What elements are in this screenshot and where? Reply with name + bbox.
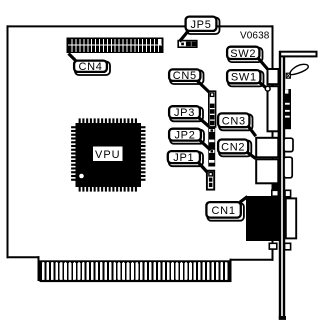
svg-text:JP5: JP5 [190, 19, 211, 31]
svg-text:CN4: CN4 [78, 61, 102, 73]
svg-text:CN3: CN3 [222, 115, 246, 127]
svg-text:JP1: JP1 [173, 152, 194, 164]
svg-text:CN1: CN1 [212, 205, 236, 217]
svg-text:JP3: JP3 [174, 107, 195, 119]
svg-text:SW1: SW1 [231, 72, 257, 84]
svg-text:CN2: CN2 [221, 141, 245, 153]
svg-text:VPU: VPU [95, 149, 121, 161]
svg-text:SW2: SW2 [230, 48, 256, 60]
svg-text:CN5: CN5 [173, 70, 197, 82]
svg-text:V0638: V0638 [240, 30, 270, 41]
svg-text:JP2: JP2 [174, 130, 195, 142]
